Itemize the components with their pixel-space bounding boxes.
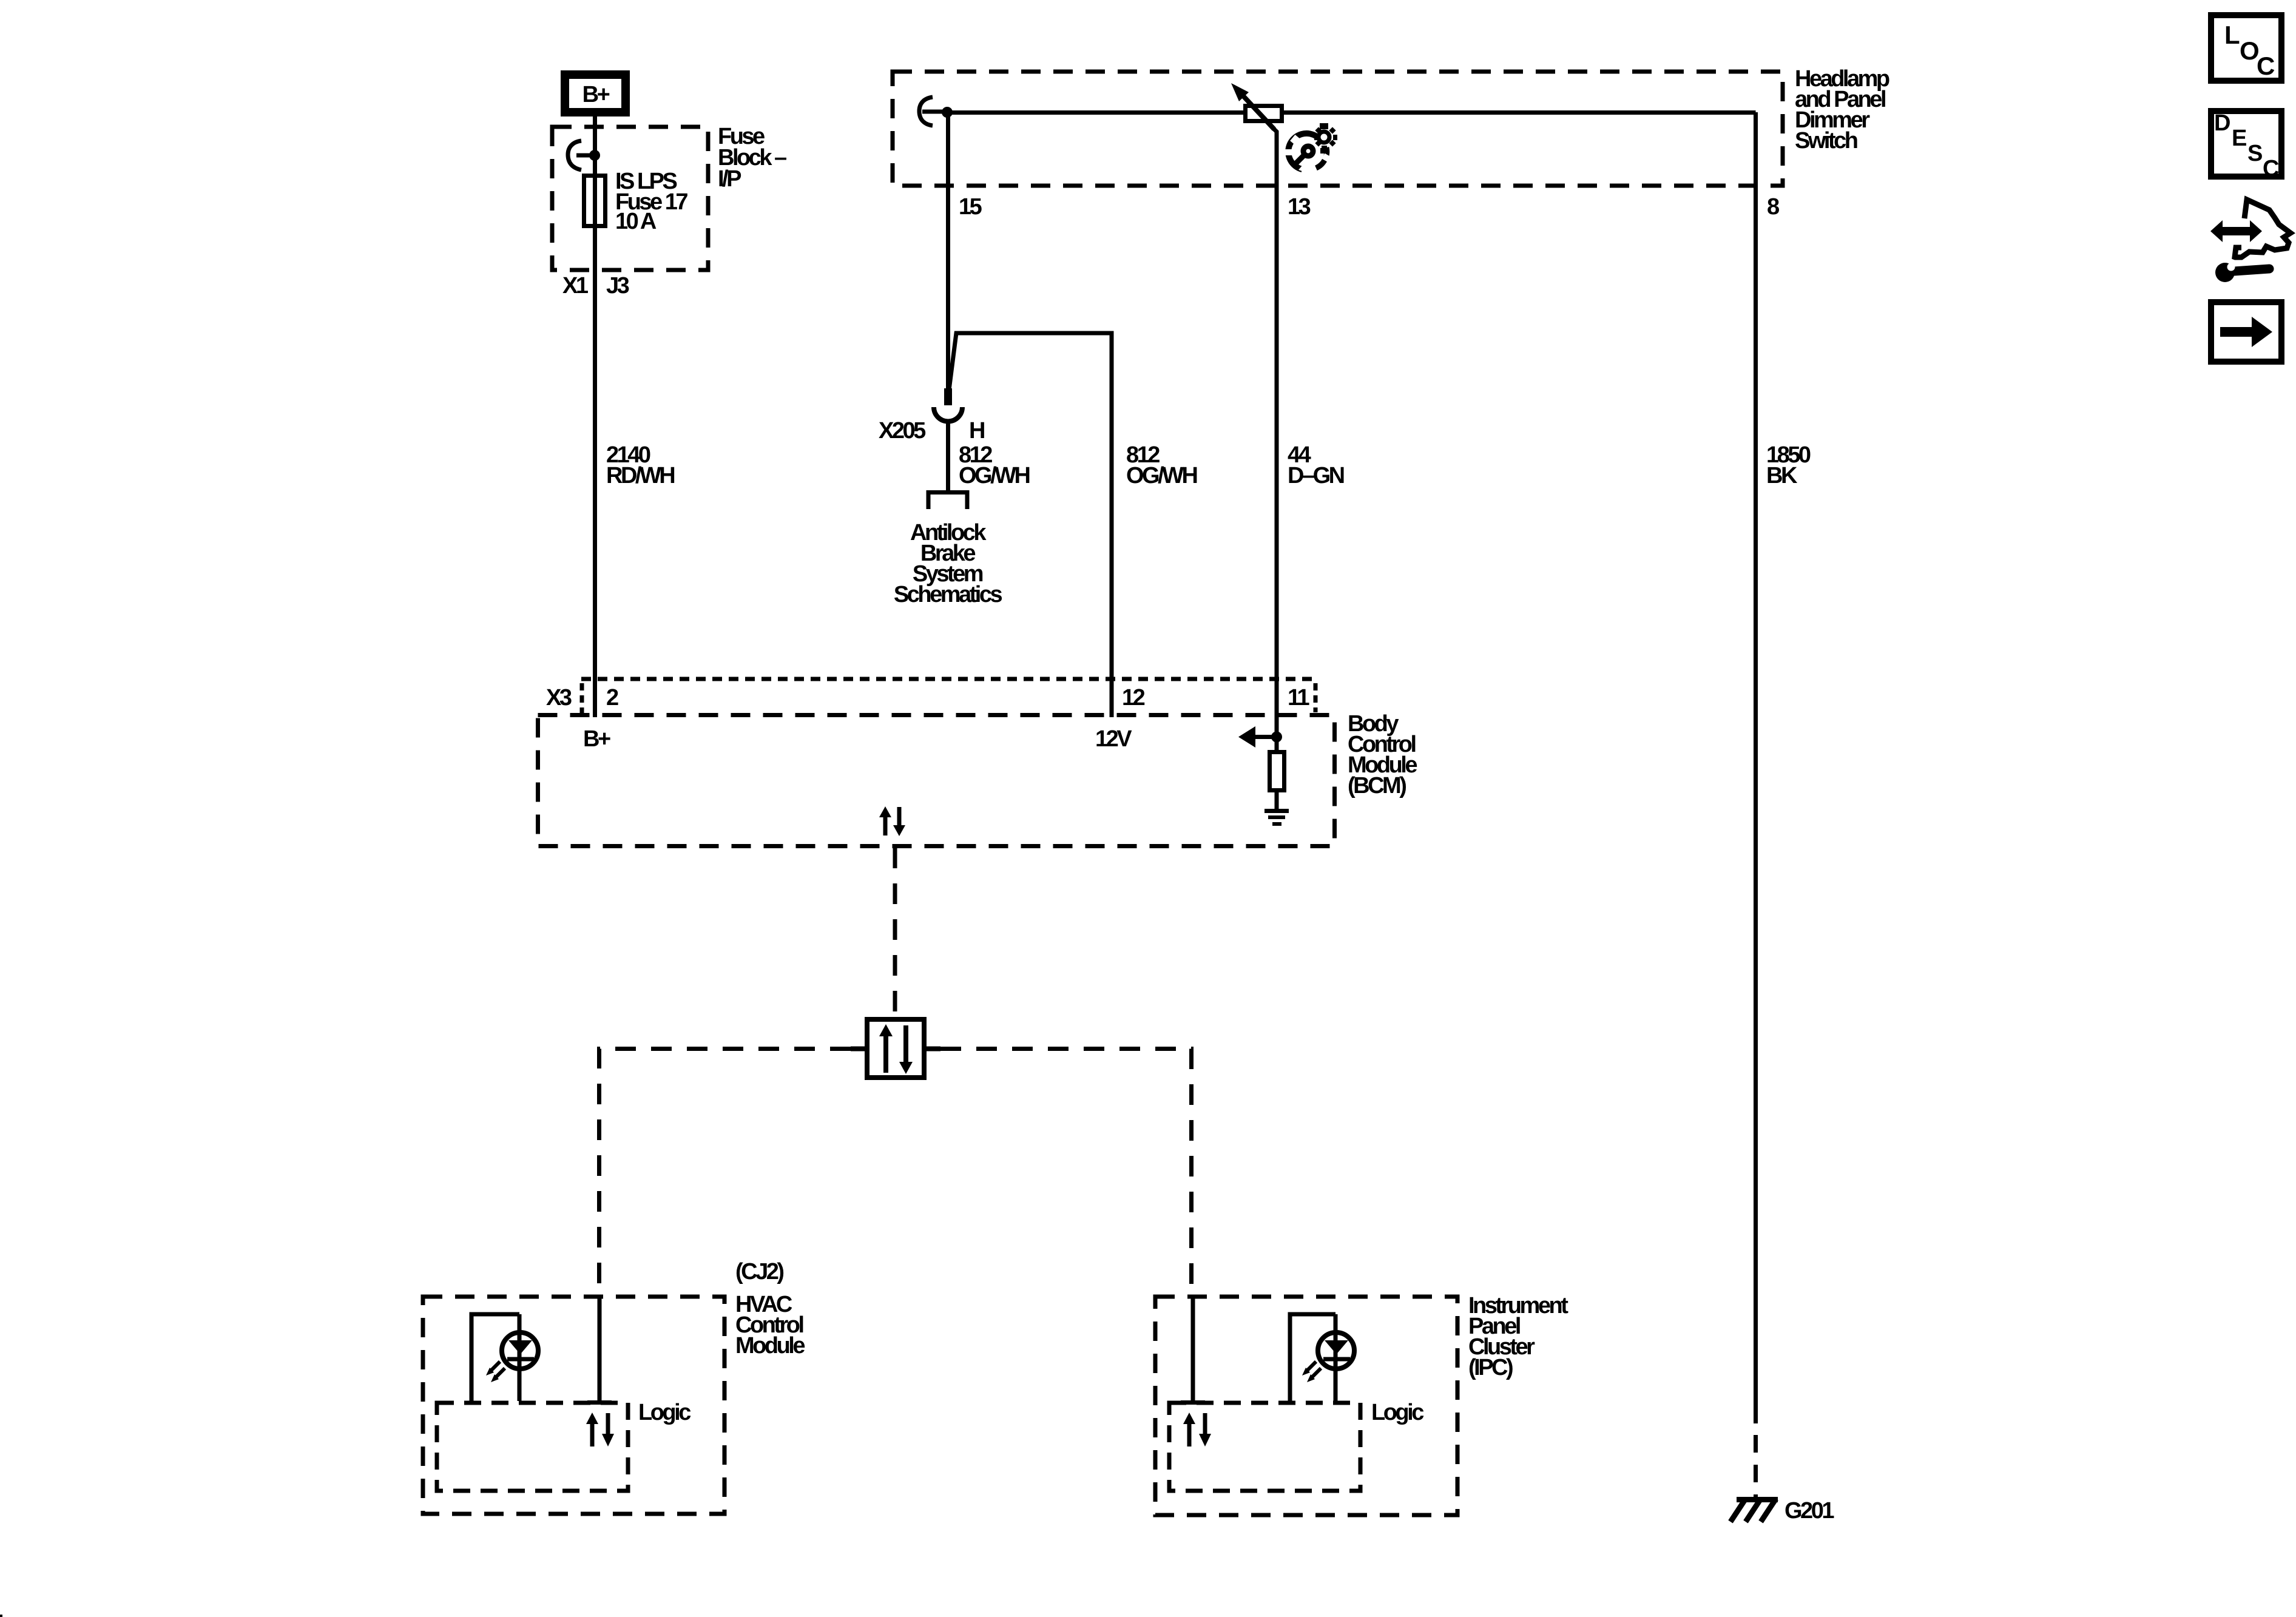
svg-text:D: D	[2214, 110, 2230, 136]
battery positive voltage B+	[565, 75, 626, 112]
label 1850 BK	[1766, 442, 1811, 488]
connector separator at X3	[580, 683, 584, 716]
junction node pin 11	[1271, 732, 1282, 743]
svg-text:X3: X3	[546, 685, 572, 711]
wire 1850 BK from pin 8	[1754, 112, 1758, 1423]
IPC logic dashed box	[1169, 1403, 1360, 1491]
diagnostic tool icon (double arrow, component outline, wrench)	[2210, 200, 2291, 282]
svg-text:(CJ2): (CJ2)	[735, 1259, 783, 1284]
svg-text:Schematics: Schematics	[894, 582, 1002, 607]
label Instrument Panel Cluster (IPC)	[1468, 1293, 1568, 1380]
page corner mark	[0, 1615, 2, 1617]
rheostat (variable resistor) body	[1246, 106, 1282, 121]
tap lead wire	[922, 110, 947, 114]
svg-text:12V: 12V	[1095, 726, 1132, 752]
svg-text:Logic: Logic	[1371, 1400, 1424, 1425]
svg-text:S: S	[2247, 141, 2263, 166]
wire from rheostat wiper to pin 13	[1273, 128, 1277, 717]
svg-text:I/P: I/P	[718, 166, 741, 192]
IPC logic serial arrows	[1183, 1413, 1211, 1447]
HVAC control module dashed box	[423, 1297, 724, 1514]
svg-text:X1: X1	[562, 273, 589, 299]
headlamp and panel dimmer switch dashed box	[893, 72, 1783, 186]
label Body Control Module (BCM)	[1348, 711, 1417, 798]
svg-text:(IPC): (IPC)	[1468, 1355, 1513, 1380]
svg-text:RD/WH: RD/WH	[606, 463, 674, 488]
svg-text:B+: B+	[583, 726, 610, 752]
HVAC backlight LED circuit wire	[471, 1314, 519, 1401]
svg-text:Module: Module	[735, 1333, 805, 1359]
serial data branch to HVAC	[599, 1049, 851, 1296]
wire 812 below X205	[946, 420, 950, 490]
serial data wire from BCM	[893, 848, 897, 1017]
svg-text:8: 8	[1767, 194, 1779, 220]
label IS LPS Fuse 17 10 A	[615, 169, 687, 234]
fuse IS LPS Fuse 17 10 A	[584, 176, 606, 226]
X205 male terminal	[944, 388, 952, 405]
crimp tap in dimmer switch	[919, 97, 933, 126]
svg-text:E: E	[2232, 126, 2247, 151]
svg-text:OG/WH: OG/WH	[959, 463, 1030, 488]
label Headlamp and Panel Dimmer Switch	[1795, 66, 1889, 154]
svg-text:15: 15	[959, 194, 982, 220]
svg-text:C: C	[2257, 52, 2275, 80]
ground G201 symbol	[1730, 1499, 1778, 1522]
connector label X205 cavity H	[879, 418, 984, 444]
body control module dashed box	[538, 715, 1335, 846]
HVAC LED indicator	[486, 1314, 538, 1401]
wire 812 OG/WH branch to BCM pin 12	[949, 333, 1112, 717]
switch internal wire to pin 8	[947, 110, 1756, 115]
label Antilock Brake System Schematics	[894, 520, 1002, 607]
gauge with gear icon (panel dimming)	[1285, 123, 1337, 172]
BCM serial data arrows	[879, 806, 905, 836]
wire 1850 BK dashed portion to ground	[1754, 1435, 1758, 1499]
fuse block I/P dashed box	[552, 127, 708, 270]
in-line connector X205	[934, 407, 962, 422]
HVAC logic dashed box	[437, 1403, 628, 1491]
IPC backlight LED circuit wire	[1290, 1314, 1335, 1401]
connector separator at pin 11	[1314, 683, 1318, 712]
svg-text:J3: J3	[606, 273, 629, 299]
next page arrow box	[2211, 302, 2281, 362]
label Fuse Block - I/P	[718, 124, 786, 192]
label 44 D-GN (pin 13 wire)	[1288, 442, 1344, 488]
svg-text:(BCM): (BCM)	[1348, 773, 1406, 798]
instrument panel cluster dashed box	[1155, 1297, 1457, 1515]
BCM internal ground	[1264, 811, 1289, 825]
label 2140 RD/WH	[606, 442, 674, 488]
DESC navigation box	[2211, 110, 2281, 181]
svg-text:12: 12	[1122, 685, 1145, 711]
crimp tap in fuse block	[568, 141, 581, 170]
HVAC serial terminal bar	[587, 1400, 612, 1405]
svg-text:2: 2	[606, 685, 618, 711]
BCM pin 11 internal wire	[1275, 717, 1279, 752]
HVAC serial data wire	[598, 1297, 602, 1400]
IPC serial data wire	[1191, 1297, 1195, 1400]
rheostat wiper diagonal	[1241, 94, 1274, 129]
svg-text:11: 11	[1288, 685, 1310, 711]
svg-text:10 A: 10 A	[615, 209, 657, 234]
svg-text:D–GN: D–GN	[1288, 463, 1344, 488]
wire 812 OG/WH from pin 15	[946, 112, 950, 391]
connector label X1 J3	[562, 273, 629, 299]
wire 2140 RD/WH (B+ feed to BCM pin 2)	[593, 112, 597, 717]
svg-text:Switch: Switch	[1795, 128, 1857, 154]
BCM connector face line	[581, 677, 1315, 681]
svg-text:C: C	[2263, 156, 2279, 181]
svg-text:B+: B+	[582, 82, 610, 107]
internal signal arrow	[1254, 735, 1274, 739]
label HVAC Control Module	[735, 1292, 805, 1359]
serial data branch to IPC	[940, 1049, 1192, 1297]
IPC LED indicator	[1302, 1314, 1354, 1401]
rheostat arrow head	[1231, 83, 1249, 101]
internal pull-up resistor	[1270, 752, 1285, 791]
IPC serial terminal bar	[1181, 1400, 1205, 1405]
label 812 OG/WH (branch segment)	[1126, 442, 1197, 488]
HVAC logic serial arrows	[586, 1413, 614, 1447]
svg-text:Logic: Logic	[638, 1400, 691, 1425]
junction node at fuse feed	[589, 150, 600, 161]
svg-text:X205: X205	[879, 418, 926, 444]
svg-text:H: H	[969, 418, 984, 444]
svg-text:BK: BK	[1766, 463, 1798, 488]
serial data junction box	[851, 1019, 940, 1078]
junction node in dimmer switch	[942, 107, 953, 118]
wire resistor to internal ground	[1275, 791, 1279, 809]
off-page splice to Antilock Brake System Schematics	[928, 493, 967, 510]
label 812 OG/WH (pin 15 segment)	[959, 442, 1030, 488]
svg-text:OG/WH: OG/WH	[1126, 463, 1197, 488]
LOC navigation box	[2211, 15, 2281, 81]
svg-text:L: L	[2224, 21, 2240, 49]
tap lead wire	[576, 154, 593, 158]
svg-text:G201: G201	[1784, 1498, 1834, 1524]
svg-text:13: 13	[1288, 194, 1311, 220]
